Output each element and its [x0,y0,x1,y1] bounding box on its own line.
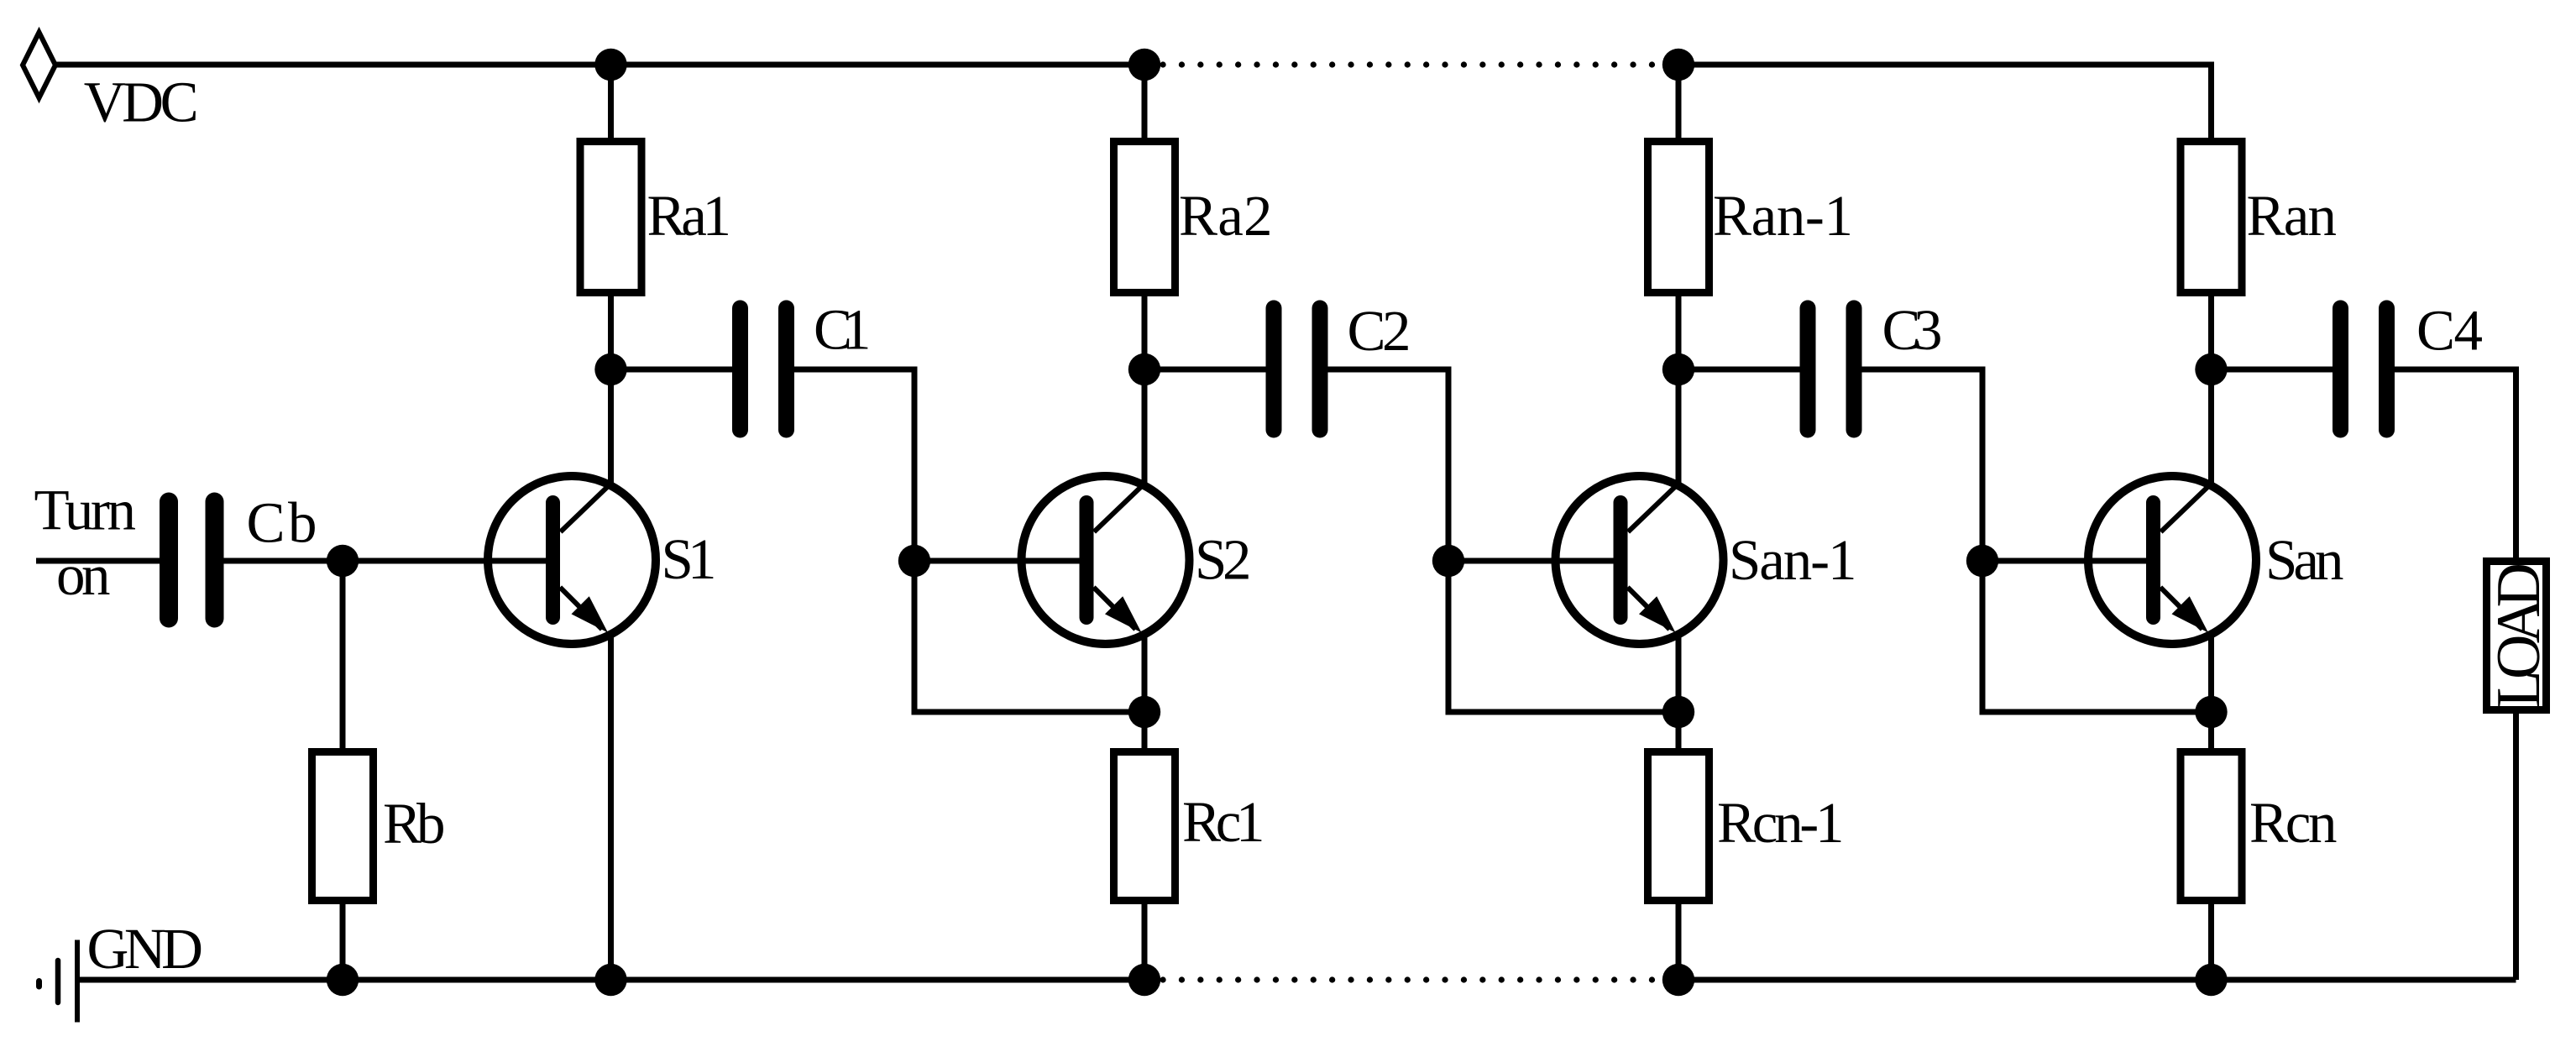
svg-text:Ran: Ran [2247,184,2338,248]
svg-text:C1: C1 [814,298,872,362]
svg-text:San: San [2265,528,2344,592]
svg-text:Cb: Cb [247,491,317,555]
svg-text:Turn: Turn [34,479,137,542]
svg-text:Rb: Rb [383,792,446,856]
svg-text:on: on [56,543,111,607]
svg-text:S1: S1 [662,527,717,591]
svg-text:S2: S2 [1195,528,1252,592]
svg-text:C4: C4 [2416,299,2483,363]
svg-text:Rc1: Rc1 [1182,790,1265,854]
svg-text:LOAD: LOAD [2484,563,2553,709]
svg-text:Rcn-1: Rcn-1 [1717,791,1845,855]
svg-text:C3: C3 [1882,298,1943,362]
svg-text:VDC: VDC [84,71,199,134]
svg-text:C2: C2 [1348,299,1411,363]
svg-text:Ran-1: Ran-1 [1713,184,1853,248]
svg-text:Ra1: Ra1 [647,184,732,248]
svg-text:GND: GND [87,917,204,981]
svg-text:Rcn: Rcn [2249,791,2338,855]
svg-text:San-1: San-1 [1729,528,1857,592]
svg-text:Ra2: Ra2 [1179,184,1273,248]
